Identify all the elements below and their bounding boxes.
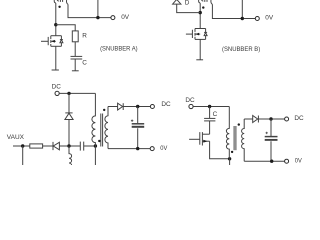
svg-text:R: R xyxy=(82,32,87,39)
resistor R xyxy=(72,31,78,42)
svg-text:DC: DC xyxy=(294,115,304,122)
wire: riser to DC B (cut at top) xyxy=(241,0,243,19)
diode D4 (output, pointing right) xyxy=(118,103,124,110)
wire: Q3 source to primary return xyxy=(210,141,230,159)
wire: down to clamp diode xyxy=(68,93,70,113)
wire: VAUX lead xyxy=(13,145,30,147)
capacitor C2 (series) xyxy=(80,142,83,151)
wire: drain node to R xyxy=(56,25,75,31)
terminal: 0V circle (bottom-left) xyxy=(150,147,154,151)
label + (C5) xyxy=(266,132,268,134)
inductor L (cut at bottom) xyxy=(69,146,72,168)
diode D3 (pointing left) xyxy=(53,142,59,150)
node: DC out junction (bottom-right) xyxy=(269,117,272,120)
wire: C2 to primary bottom xyxy=(84,145,96,147)
wire: return drop (cut at bottom) xyxy=(229,159,231,165)
mosfet Q2 (snubber B) xyxy=(186,29,207,60)
transformer T2 winding stub (snubber B, cut at top) xyxy=(199,0,213,4)
wire: R to C xyxy=(74,42,76,56)
node: junction on 0V rail A xyxy=(96,16,99,19)
diode D2 (clamp, pointing up) xyxy=(65,113,73,120)
wire: node B to diode D xyxy=(177,4,201,13)
wire: DC to T4 primary xyxy=(193,106,229,108)
terminal: DC open circle (bottom-left) xyxy=(55,91,59,95)
svg-text:DC: DC xyxy=(161,101,171,108)
node: junction on 0V rail B xyxy=(241,17,244,20)
mosfet Q3 (bottom-right, simple symbol) xyxy=(189,132,210,145)
capacitor C5 (output, polarized) xyxy=(265,137,278,140)
wire: diode D2 to VAUX node xyxy=(68,120,70,147)
svg-text:0V: 0V xyxy=(265,15,274,22)
phase dot T4 primary xyxy=(231,151,233,153)
wire: T1 right lead to 0V rail A xyxy=(68,4,111,17)
wire: C to return stub xyxy=(74,59,76,71)
wire: junction to cap C5 xyxy=(270,119,272,136)
wire: D4 to DC out terminal xyxy=(123,106,150,108)
node: 0V rail junction (bottom-right) xyxy=(270,160,273,163)
terminal: DC out circle (bottom-right) xyxy=(285,117,289,121)
svg-text:DC: DC xyxy=(52,84,62,91)
wire: C5 to 0V rail xyxy=(270,141,272,161)
node: source/primary junction xyxy=(228,157,231,160)
node: DC junction (bottom-right) xyxy=(208,105,211,108)
wire: C4 to mosfet Q3 drain xyxy=(209,121,211,134)
transformer T3 secondary winding xyxy=(105,107,108,149)
phase dot T4 secondary xyxy=(238,123,240,125)
svg-text:D: D xyxy=(185,0,190,7)
svg-text:(SNUBBER B): (SNUBBER B) xyxy=(222,46,260,53)
node: DC junction xyxy=(67,92,70,95)
diode D5 (output, pointing right) xyxy=(253,116,259,123)
terminal: 0V circle (bottom-right) xyxy=(285,159,289,163)
transformer T1 winding stub (snubber A, cut at top) xyxy=(54,0,68,4)
diode D (cut at top) xyxy=(173,0,181,4)
wire: riser to DC (cut at top) xyxy=(97,0,99,18)
wire: 0V rail (bottom-left) xyxy=(108,148,150,150)
wire: D3 to node xyxy=(59,145,80,147)
phase dot T2 xyxy=(202,6,204,8)
capacitor C4 xyxy=(204,118,215,121)
svg-text:DC: DC xyxy=(185,97,195,104)
wire: T1 left lead to drain node xyxy=(55,3,57,36)
label + (C3) xyxy=(131,120,133,122)
svg-text:VAUX: VAUX xyxy=(7,134,25,141)
wire: T2 left lead to drain node B xyxy=(199,3,201,28)
phase dot T3 primary xyxy=(98,140,100,142)
svg-text:0V: 0V xyxy=(295,157,303,164)
svg-text:0V: 0V xyxy=(121,14,130,21)
node: diode junction B xyxy=(199,11,202,14)
wire: 0V rail (bottom-right) xyxy=(244,160,284,162)
wire: C3 to 0V rail xyxy=(137,128,139,148)
wire: D5 to DC out terminal xyxy=(258,118,284,120)
transformer T3 primary winding xyxy=(92,93,95,165)
phase dot T1 xyxy=(58,6,60,8)
node: junction at D2/D3/L/C xyxy=(67,144,70,147)
wire: junction to output cap xyxy=(137,107,139,124)
wire: T2 right lead to 0V rail B xyxy=(212,4,255,18)
transformer T4 secondary winding xyxy=(242,119,245,161)
terminal: DC circle (bottom-right) xyxy=(189,104,193,108)
capacitor C (snubber A) xyxy=(71,56,83,59)
svg-text:(SNUBBER A): (SNUBBER A) xyxy=(100,46,138,53)
terminal: 0V open circle A xyxy=(111,16,115,20)
node: primary bottom junction xyxy=(94,144,97,147)
node: drain junction A xyxy=(54,23,57,26)
terminal: 0V open circle B xyxy=(255,17,259,21)
terminal bar below C xyxy=(72,70,79,72)
node: 0V rail junction xyxy=(136,147,139,150)
wire: R2 to diode D3 xyxy=(43,145,53,147)
wire: secondary top to diode D4 xyxy=(108,106,118,108)
node: VAUX junction xyxy=(21,144,24,147)
phase dot T3 secondary xyxy=(103,109,105,111)
wire: T4 secondary top to diode D5 xyxy=(244,118,253,120)
transformer T4 primary winding xyxy=(226,107,229,159)
capacitor C3 (output, polarized) xyxy=(132,124,145,127)
resistor R2 (VAUX series) xyxy=(30,144,43,148)
transformer T3 core xyxy=(101,114,103,147)
svg-text:C: C xyxy=(213,111,218,118)
node: DC out junction xyxy=(136,105,139,108)
wire: VAUX drop (cut at bottom) xyxy=(22,146,24,165)
mosfet Q1 (snubber A) xyxy=(41,36,63,70)
svg-text:0V: 0V xyxy=(160,145,168,152)
svg-text:C: C xyxy=(82,59,87,66)
wire: DC terminal to transformer T3 primary xyxy=(59,92,95,94)
transformer T4 core xyxy=(234,126,236,150)
wire: junction to cap C4 xyxy=(209,107,211,119)
terminal: DC out circle (bottom-left) xyxy=(150,105,154,109)
